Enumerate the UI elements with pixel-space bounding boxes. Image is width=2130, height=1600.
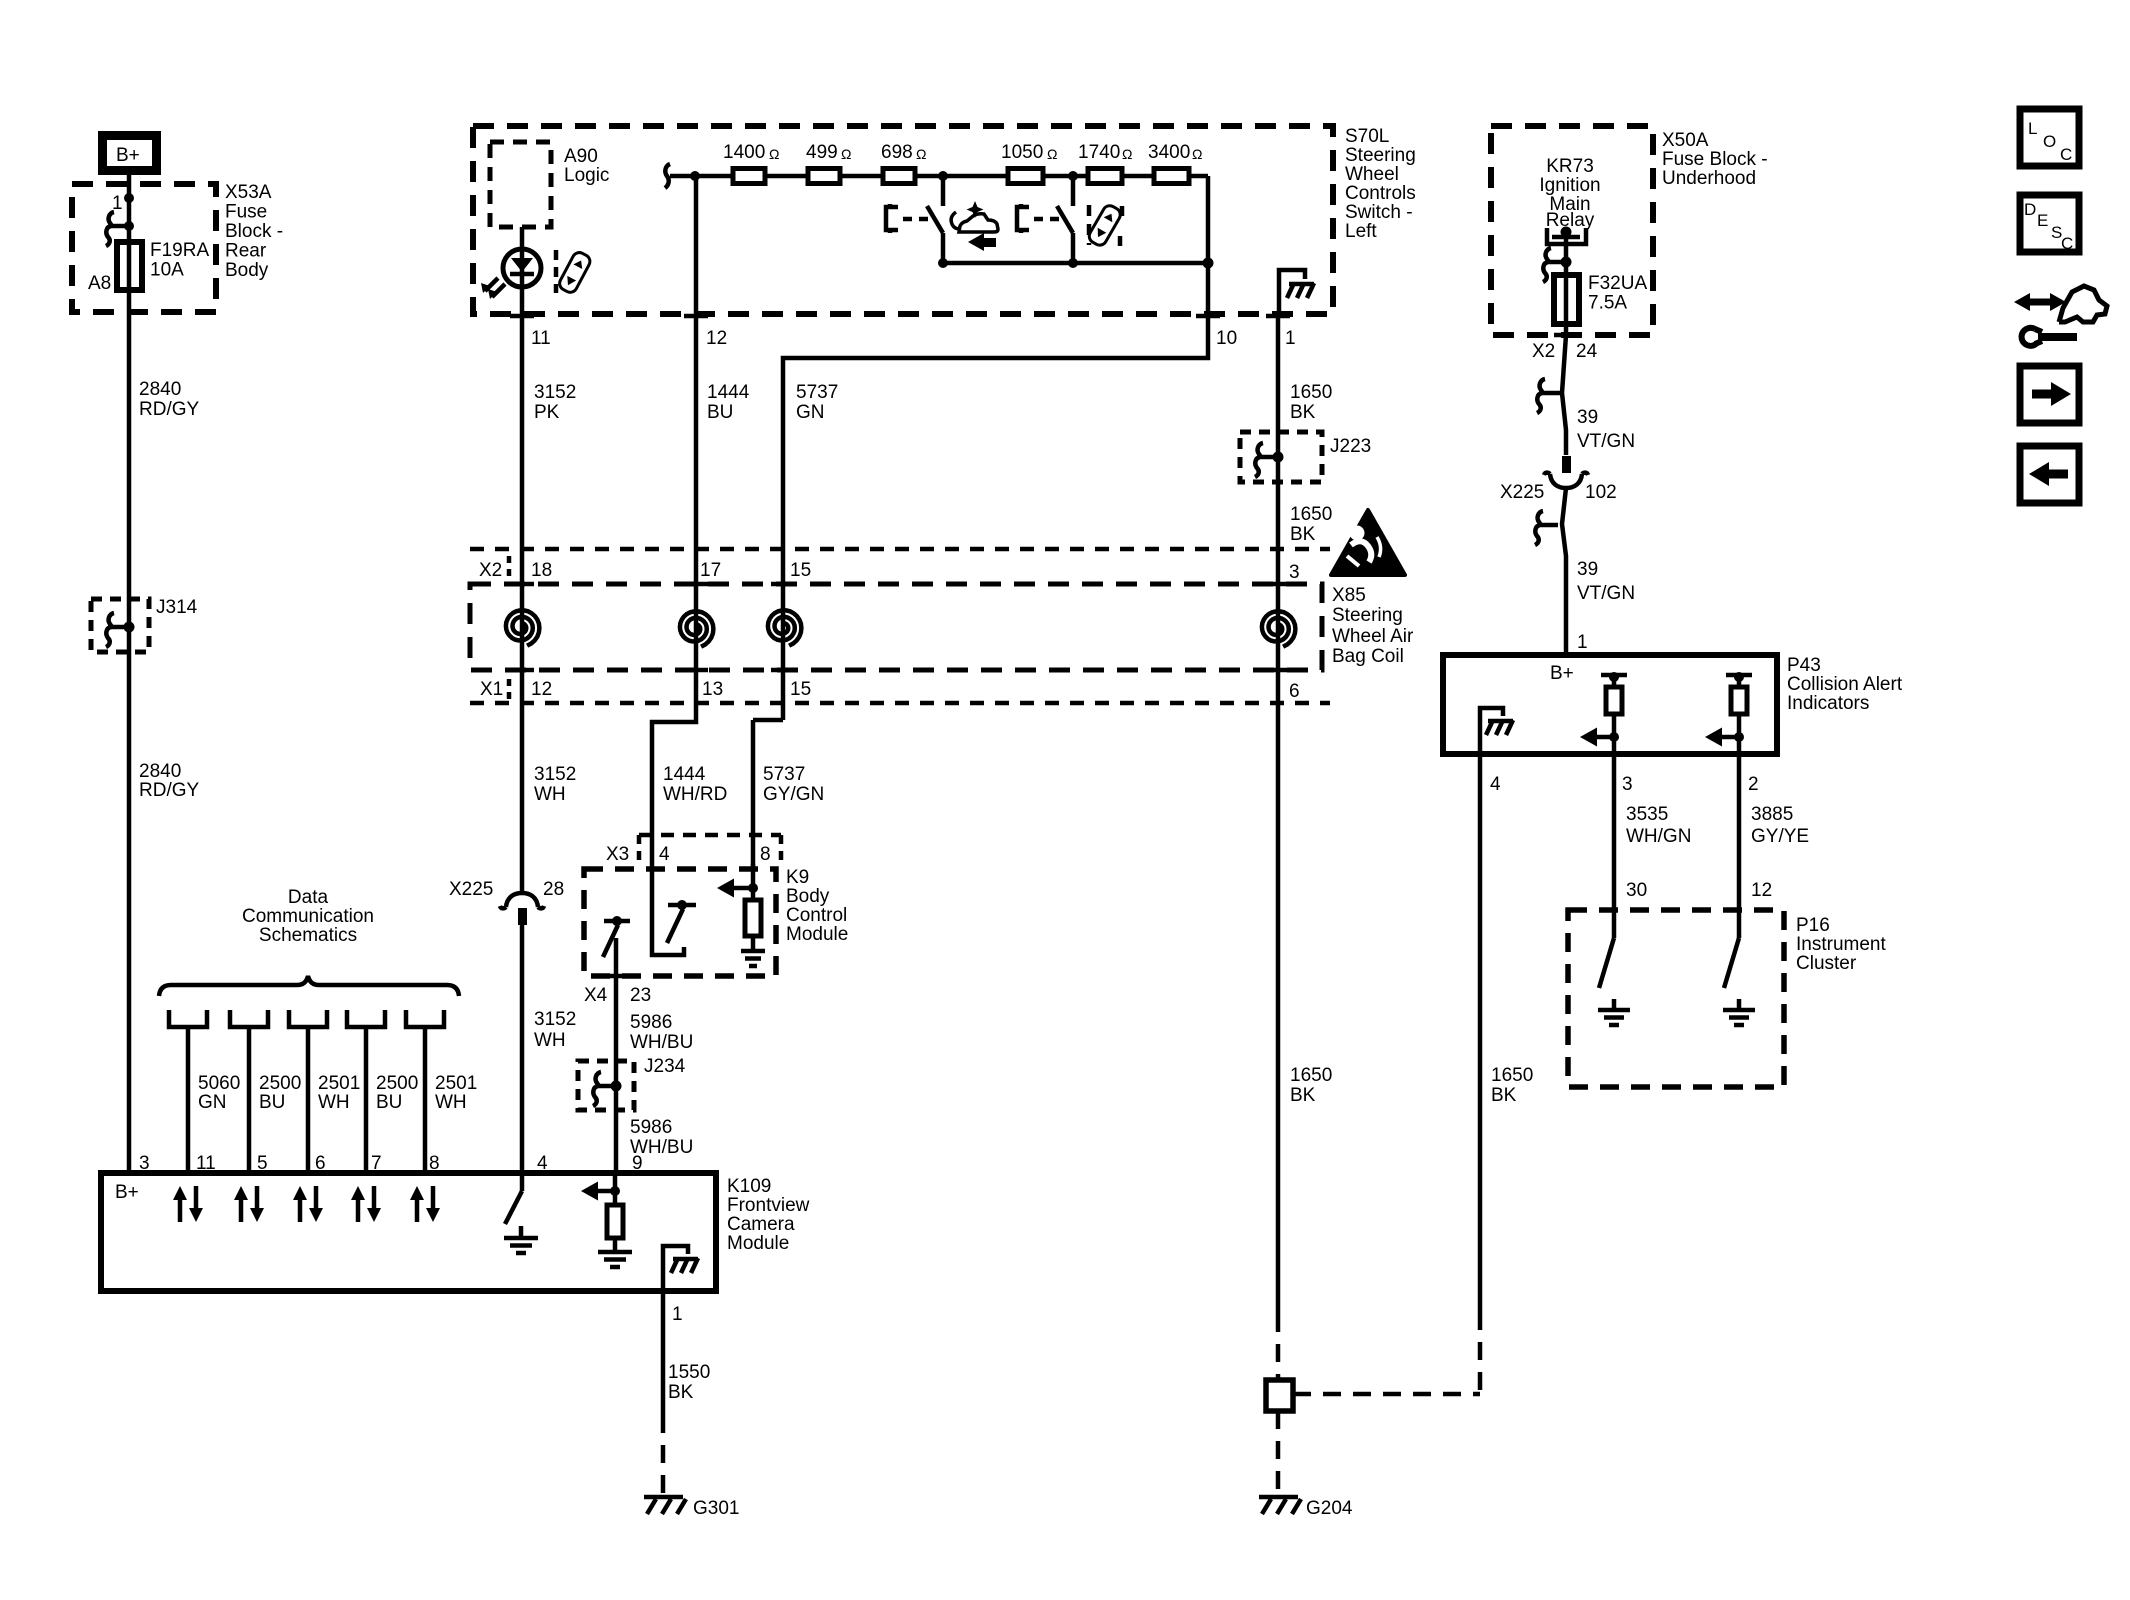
module P16 Instrument Cluster dashed box — [1568, 910, 1886, 1087]
svg-text:KR73: KR73 — [1546, 156, 1594, 177]
connector X1 of X85 (dotted row) — [470, 679, 1330, 703]
svg-text:WH: WH — [534, 1030, 566, 1051]
resistor to ground inside K109 (5986 input) with arrow — [581, 1173, 632, 1267]
icon car beside LED — [556, 250, 592, 295]
label Data Communication Schematics — [242, 887, 374, 946]
svg-text:Control: Control — [786, 905, 847, 926]
data bus terminal and wire 2500 BU to K109 pin 5 — [230, 1010, 301, 1173]
svg-text:28: 28 — [543, 879, 564, 900]
node junction with arrow on 5737 inside K9 — [717, 864, 758, 900]
svg-text:3: 3 — [139, 1153, 150, 1174]
bidirectional data arrows under pin at x=366 — [351, 1186, 381, 1222]
svg-text:1: 1 — [1577, 632, 1588, 653]
svg-text:BK: BK — [668, 1382, 694, 1403]
node junction dot pin 12 branch — [690, 171, 700, 181]
svg-text:Ω: Ω — [1122, 146, 1132, 162]
connector X3 of K9 (dotted band) — [606, 835, 781, 866]
svg-text:1: 1 — [672, 1304, 683, 1325]
wire label 5986 WH/BU upper — [630, 1012, 693, 1053]
wire 1650 through coil (X2-3 to X1-6) — [1266, 457, 1290, 1314]
svg-text:5986: 5986 — [630, 1117, 672, 1138]
coil winding 1 (spiral) — [506, 610, 540, 645]
data bus terminal and wire 2500 BU to K109 pin 7 — [347, 1010, 418, 1173]
svg-text:11: 11 — [531, 328, 551, 349]
svg-text:698: 698 — [881, 142, 913, 163]
splice connector J223 — [1240, 432, 1371, 482]
svg-text:1444: 1444 — [663, 764, 706, 785]
fuse F32UA 7.5A — [1554, 273, 1647, 335]
svg-text:BU: BU — [707, 402, 733, 423]
svg-text:Wheel Air: Wheel Air — [1332, 626, 1414, 647]
svg-text:GY/GN: GY/GN — [763, 784, 824, 805]
svg-text:5737: 5737 — [796, 382, 838, 403]
nav icon car with double arrow and wrench — [2014, 286, 2107, 346]
data bus terminal and wire 2501 WH to K109 pin 8 — [406, 1010, 477, 1173]
svg-text:8: 8 — [429, 1153, 440, 1174]
brace over data bus terminals — [159, 976, 459, 996]
coil winding 2 (spiral) — [680, 611, 714, 646]
svg-text:4: 4 — [537, 1153, 548, 1174]
svg-text:2500: 2500 — [259, 1073, 301, 1094]
svg-text:2501: 2501 — [318, 1073, 360, 1094]
internal ground of P43 chassis symbol — [1480, 708, 1513, 754]
internal ground of S70L chassis symbol — [1279, 270, 1314, 316]
ground G301 — [644, 1497, 739, 1519]
resistor 499 ohm — [806, 142, 851, 184]
svg-text:J314: J314 — [156, 597, 198, 618]
wire dashed from splice to P43 ground branch — [1293, 1392, 1480, 1397]
switch inside K9 (1444 input) — [652, 869, 696, 955]
nav icon DESC box — [2020, 195, 2079, 253]
svg-text:17: 17 — [700, 560, 721, 581]
nav icon arrow right box — [2020, 366, 2079, 423]
svg-text:1050: 1050 — [1001, 142, 1043, 163]
svg-text:11: 11 — [196, 1153, 216, 1174]
svg-text:X53A: X53A — [225, 182, 272, 203]
inline connector X225 pin 102 — [1500, 456, 1617, 503]
svg-text:3: 3 — [1289, 562, 1300, 583]
svg-text:1650: 1650 — [1491, 1065, 1533, 1086]
svg-text:B+: B+ — [115, 1182, 139, 1203]
svg-text:23: 23 — [630, 985, 651, 1006]
svg-text:G301: G301 — [693, 1498, 739, 1519]
svg-text:WH: WH — [435, 1092, 467, 1113]
svg-text:BU: BU — [376, 1092, 402, 1113]
svg-text:5060: 5060 — [198, 1073, 240, 1094]
svg-text:GN: GN — [198, 1092, 227, 1113]
label X85 Steering Wheel Air Bag Coil — [1332, 585, 1414, 667]
svg-text:1444: 1444 — [707, 382, 750, 403]
svg-text:Cluster: Cluster — [1796, 953, 1857, 974]
wire 1650 BK from S70L pin 1 — [1276, 316, 1281, 457]
resistor 1050 ohm — [1001, 142, 1057, 184]
resistor 698 ohm — [881, 142, 926, 184]
svg-text:2: 2 — [1748, 774, 1759, 795]
resistor pull inside K9 — [745, 900, 761, 949]
svg-text:BK: BK — [1290, 402, 1316, 423]
switch assembly S70L Steering Wheel Controls Switch - Left dashed box — [473, 126, 1416, 314]
svg-text:X3: X3 — [606, 844, 629, 865]
svg-text:Ω: Ω — [916, 146, 926, 162]
wire 2840 RD/GY from B+ down to K109 pin 3 — [127, 175, 132, 1173]
svg-text:WH: WH — [534, 784, 566, 805]
svg-text:Frontview: Frontview — [727, 1195, 810, 1216]
svg-text:6: 6 — [315, 1153, 326, 1174]
wire label 1650 BK left branch — [1290, 1065, 1332, 1106]
svg-text:X225: X225 — [449, 879, 493, 900]
svg-text:Switch -: Switch - — [1345, 202, 1413, 223]
bidirectional data arrows under pin at x=308 — [293, 1186, 323, 1222]
svg-text:3885: 3885 — [1751, 804, 1793, 825]
wire 3885 GY/YE P43 pin2 to P16 pin12 — [1739, 754, 1809, 938]
control unit A90 Logic dashed box — [490, 142, 609, 227]
svg-text:L: L — [2028, 119, 2037, 138]
svg-text:4: 4 — [1490, 774, 1501, 795]
inline terminal hook at chain left end — [665, 164, 676, 188]
svg-text:Bag Coil: Bag Coil — [1332, 646, 1404, 667]
svg-text:RD/GY: RD/GY — [139, 399, 200, 420]
svg-text:1: 1 — [1285, 328, 1296, 349]
svg-text:2840: 2840 — [139, 379, 181, 400]
svg-text:Left: Left — [1345, 221, 1377, 242]
svg-text:Camera: Camera — [727, 1214, 795, 1235]
svg-text:J234: J234 — [644, 1056, 686, 1077]
module P43 Collision Alert Indicators box — [1443, 655, 1903, 754]
pin ticks and labels P43 bottom 4 3 2 — [1468, 754, 1759, 795]
wire 5737 through coil (X2-15 to X1-15) with jog — [753, 584, 795, 869]
wire dashed 1650 BK to splice — [1276, 1314, 1281, 1380]
wire 3152 WH from X225 to K109 pin 4 — [520, 924, 525, 1173]
resistor 1740 ohm — [1078, 142, 1132, 184]
wire resistor chain bus y=176 — [676, 176, 1208, 263]
svg-text:Block -: Block - — [225, 221, 283, 242]
svg-text:5737: 5737 — [763, 764, 805, 785]
switch lane keep blade — [1057, 171, 1078, 263]
svg-text:C: C — [2061, 234, 2073, 253]
svg-text:Steering: Steering — [1345, 145, 1416, 166]
svg-text:Controls: Controls — [1345, 183, 1416, 204]
svg-text:E: E — [2037, 211, 2048, 230]
svg-text:3152: 3152 — [534, 1009, 576, 1030]
LED indicator lamp in S70L — [481, 249, 541, 299]
svg-text:Ω: Ω — [1047, 146, 1057, 162]
svg-text:Body: Body — [225, 260, 269, 281]
svg-text:Data: Data — [288, 887, 329, 908]
svg-text:1740: 1740 — [1078, 142, 1120, 163]
coil winding 3 (spiral) — [768, 610, 802, 645]
wire labels under S70L: 3152 PK / 1444 BU / 5737 GN / 1650 BK — [534, 382, 1332, 423]
mechanical linkage E-bracket 2 — [1017, 204, 1060, 233]
airbag coil assembly X85 dashed box — [470, 584, 1322, 670]
svg-text:1650: 1650 — [1290, 504, 1332, 525]
svg-text:102: 102 — [1585, 482, 1617, 503]
svg-text:1400: 1400 — [723, 142, 765, 163]
icon lane departure warning — [1087, 203, 1123, 248]
svg-text:GY/YE: GY/YE — [1751, 826, 1809, 847]
svg-text:Wheel: Wheel — [1345, 164, 1399, 185]
wire 3152 through coil (X2-18 to X1-12) — [510, 316, 534, 894]
svg-text:2840: 2840 — [139, 761, 181, 782]
svg-text:12: 12 — [706, 328, 727, 349]
svg-text:B+: B+ — [1550, 663, 1574, 684]
splice connector J234 — [578, 1056, 686, 1110]
switch to ground 1 inside P16 — [1598, 938, 1630, 1025]
svg-text:7.5A: 7.5A — [1588, 293, 1627, 314]
connector X53A Fuse Block - Rear Body dashed box — [72, 182, 283, 312]
indicator element 1 in P43 (resistor with feed bar) — [1580, 672, 1627, 754]
svg-text:6: 6 — [1289, 681, 1300, 702]
svg-text:BK: BK — [1491, 1085, 1517, 1106]
svg-text:X85: X85 — [1332, 585, 1366, 606]
svg-text:10: 10 — [1216, 328, 1237, 349]
module K109 Frontview Camera Module box — [101, 1173, 810, 1291]
nav icon LOC box — [2020, 109, 2079, 166]
pin tick X4-23 on K9 bottom — [584, 976, 651, 1006]
bidirectional data arrows under pin at x=249 — [234, 1186, 264, 1222]
wire labels under X1: 3152 WH / 1444 WH/RD / 5737 GY/GN — [534, 764, 824, 805]
svg-text:Indicators: Indicators — [1787, 693, 1869, 714]
svg-text:BK: BK — [1290, 1085, 1316, 1106]
svg-text:24: 24 — [1576, 341, 1598, 362]
relay KR73 Ignition Main Relay label — [1539, 156, 1600, 231]
wire 1444 through coil (X2-17 to X1-13) with jog — [652, 316, 708, 869]
power symbol B+ battery feed box — [103, 136, 157, 171]
wire dashed splice to G204 — [1276, 1411, 1281, 1494]
svg-text:Underhood: Underhood — [1662, 168, 1756, 189]
svg-text:K109: K109 — [727, 1176, 771, 1197]
svg-text:4: 4 — [659, 844, 670, 865]
splice node square — [1266, 1380, 1293, 1411]
svg-text:Ω: Ω — [1192, 146, 1202, 162]
svg-text:S70L: S70L — [1345, 126, 1389, 147]
svg-text:A90: A90 — [564, 146, 598, 167]
wire 1550 BK from K109 pin 1 — [663, 1291, 710, 1494]
wire 5737 GN pin 10 jog left — [783, 263, 1208, 584]
svg-text:Module: Module — [727, 1233, 789, 1254]
svg-text:Instrument: Instrument — [1796, 934, 1886, 955]
svg-text:WH/GN: WH/GN — [1626, 826, 1691, 847]
pin tick X2-24 at X50A bottom — [1532, 335, 1598, 362]
wire 1444 BU from chain to pin 12 — [694, 176, 699, 316]
svg-text:18: 18 — [531, 560, 552, 581]
svg-text:Fuse: Fuse — [225, 202, 267, 223]
svg-text:Module: Module — [786, 924, 848, 945]
wire label 2840 RD/GY lower — [139, 761, 200, 801]
wire label 3152 WH above K109 — [534, 1009, 576, 1051]
ground G204 — [1259, 1497, 1353, 1519]
inline terminal hook inside X53A — [106, 212, 134, 246]
svg-text:1550: 1550 — [668, 1362, 710, 1383]
svg-text:8: 8 — [760, 844, 771, 865]
svg-text:15: 15 — [790, 560, 811, 581]
svg-text:X4: X4 — [584, 985, 608, 1006]
svg-text:13: 13 — [702, 679, 723, 700]
svg-text:F19RA: F19RA — [150, 240, 209, 261]
svg-text:Collision Alert: Collision Alert — [1787, 674, 1903, 695]
pin ticks S70L bottom 11 12 10 1 — [510, 316, 1296, 349]
svg-text:1650: 1650 — [1290, 382, 1332, 403]
svg-text:5: 5 — [257, 1153, 268, 1174]
svg-text:39: 39 — [1577, 407, 1598, 428]
connector X2 of X85 (dotted row) — [470, 549, 1330, 583]
svg-text:X225: X225 — [1500, 482, 1544, 503]
wire 1650 BK from P43 pin 4 — [1480, 754, 1533, 1394]
svg-text:BU: BU — [259, 1092, 285, 1113]
wire from A90 through LED to pin 11 — [520, 227, 525, 316]
wire bottom bus of switches with junction dots — [938, 258, 1214, 269]
svg-text:C: C — [2060, 145, 2072, 164]
switch inside K9 (to X4-23 output) — [603, 916, 630, 1173]
svg-text:5986: 5986 — [630, 1012, 672, 1033]
svg-text:Rear: Rear — [225, 241, 267, 262]
svg-text:3152: 3152 — [534, 764, 576, 785]
module K9 Body Control Module dashed box — [584, 867, 848, 976]
svg-text:WH: WH — [318, 1092, 350, 1113]
data bus terminal and wire 2501 WH to K109 pin 6 — [289, 1010, 360, 1173]
svg-text:VT/GN: VT/GN — [1577, 583, 1635, 604]
svg-text:B+: B+ — [116, 145, 140, 166]
wire label 2840 RD/GY upper — [139, 379, 200, 420]
wire label 5986 WH/BU lower — [630, 1117, 693, 1158]
bidirectional data arrows under pin at x=425 — [410, 1186, 440, 1222]
mechanical linkage E-bracket 1 — [886, 204, 929, 233]
svg-text:Ω: Ω — [841, 146, 851, 162]
svg-text:PK: PK — [534, 402, 560, 423]
svg-text:D: D — [2024, 200, 2036, 219]
svg-text:P16: P16 — [1796, 915, 1830, 936]
svg-text:Communication: Communication — [242, 906, 374, 927]
svg-text:9: 9 — [632, 1153, 643, 1174]
switch collision alert blade — [927, 171, 948, 263]
switch to ground inside K109 (3152 input) — [504, 1173, 538, 1253]
fuse block X50A Fuse Block - Underhood dashed box — [1491, 126, 1768, 335]
pin 1 of X53A junction dot — [112, 193, 134, 214]
svg-text:15: 15 — [790, 679, 811, 700]
svg-text:K9: K9 — [786, 867, 809, 888]
svg-text:GN: GN — [796, 402, 825, 423]
svg-text:1650: 1650 — [1290, 1065, 1332, 1086]
svg-text:J223: J223 — [1330, 436, 1371, 457]
svg-text:Fuse Block -: Fuse Block - — [1662, 149, 1768, 170]
svg-text:X2: X2 — [1532, 341, 1555, 362]
svg-text:X50A: X50A — [1662, 130, 1709, 151]
inline terminal hook below relay — [1543, 248, 1572, 282]
svg-text:3535: 3535 — [1626, 804, 1668, 825]
svg-text:3152: 3152 — [534, 382, 576, 403]
svg-text:7: 7 — [371, 1153, 382, 1174]
svg-text:O: O — [2043, 132, 2056, 151]
svg-text:Relay: Relay — [1546, 210, 1595, 231]
internal ground of K109 chassis symbol pin 1 — [663, 1246, 698, 1291]
svg-text:RD/GY: RD/GY — [139, 780, 200, 801]
svg-text:39: 39 — [1577, 559, 1598, 580]
relay KR73 output terminal symbol — [1547, 227, 1586, 276]
indicator element 2 in P43 (resistor with feed bar) — [1705, 672, 1752, 754]
data bus terminal and wire 5060 GN to K109 pin 11 — [169, 1010, 240, 1173]
svg-text:Logic: Logic — [564, 165, 609, 186]
pin labels on K109 top — [115, 1153, 643, 1203]
wire 39 VT/GN X225 to P43 pin 1 with inline hook — [1535, 488, 1635, 655]
warning icon airbag triangle — [1331, 510, 1405, 575]
nav icon arrow left box — [2020, 446, 2079, 503]
svg-text:WH/RD: WH/RD — [663, 784, 727, 805]
svg-text:Ignition: Ignition — [1539, 175, 1600, 196]
ground symbol inside K9 — [741, 951, 765, 966]
svg-text:Steering: Steering — [1332, 605, 1403, 626]
svg-text:499: 499 — [806, 142, 838, 163]
wire 39 VT/GN fuse to X225 with inline hook — [1537, 335, 1635, 455]
bidirectional data arrows under pin at x=188 — [173, 1186, 203, 1222]
svg-text:10A: 10A — [150, 260, 184, 281]
resistor 3400 ohm — [1148, 142, 1202, 184]
svg-text:2501: 2501 — [435, 1073, 477, 1094]
svg-text:VT/GN: VT/GN — [1577, 431, 1635, 452]
svg-text:30: 30 — [1626, 880, 1647, 901]
splice connector J314 — [91, 597, 198, 652]
svg-text:Schematics: Schematics — [259, 925, 357, 946]
coil winding 4 (spiral) — [1262, 611, 1296, 646]
svg-text:F32UA: F32UA — [1588, 273, 1647, 294]
svg-text:Body: Body — [786, 886, 830, 907]
svg-text:2500: 2500 — [376, 1073, 418, 1094]
wire 3535 WH/GN P43 pin3 to P16 pin30 — [1614, 754, 1691, 938]
svg-text:3: 3 — [1622, 774, 1633, 795]
svg-text:12: 12 — [1751, 880, 1772, 901]
svg-text:WH/BU: WH/BU — [630, 1032, 693, 1053]
resistor 1400 ohm — [723, 142, 779, 184]
svg-text:BK: BK — [1290, 524, 1316, 545]
svg-text:12: 12 — [531, 679, 552, 700]
svg-text:X1: X1 — [480, 679, 503, 700]
wire label 1650 BK below J223 — [1290, 504, 1332, 545]
switch to ground 2 inside P16 — [1723, 938, 1755, 1025]
svg-text:Ω: Ω — [769, 146, 779, 162]
svg-text:X2: X2 — [479, 560, 502, 581]
svg-text:3400: 3400 — [1148, 142, 1190, 163]
inline connector X225 pin 28 on 3152 wire — [449, 879, 564, 925]
svg-text:A8: A8 — [88, 273, 111, 294]
icon forward collision alert — [951, 201, 998, 251]
svg-text:P43: P43 — [1787, 655, 1821, 676]
svg-text:G204: G204 — [1306, 1498, 1353, 1519]
fuse F19RA 10A position A8 — [88, 240, 209, 294]
